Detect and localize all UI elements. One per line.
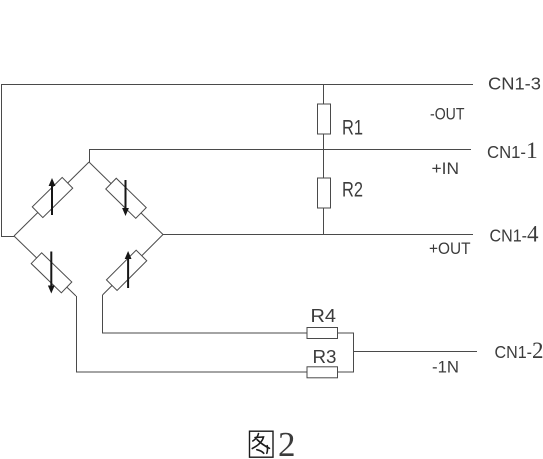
strain gauge top-left body bbox=[32, 177, 72, 217]
resistor R4 bbox=[307, 328, 338, 339]
wire bus joining R4 and R3 bbox=[353, 333, 355, 372]
svg-text:-OUT: -OUT bbox=[430, 105, 465, 123]
arrow down through bottom-left gauge bbox=[48, 252, 55, 294]
wire CN1-1 rail from bridge top node bbox=[90, 150, 472, 163]
arrow up through top-left gauge bbox=[49, 178, 56, 215]
caption character tu (figure) drawn as strokes bbox=[250, 431, 274, 457]
svg-text:CN1-4: CN1-4 bbox=[490, 222, 540, 247]
svg-text:2: 2 bbox=[278, 425, 296, 459]
svg-text:CN1-1: CN1-1 bbox=[487, 138, 538, 164]
wire from bottom-right gauge to R4 bbox=[103, 295, 308, 333]
svg-text:CN1-2: CN1-2 bbox=[495, 338, 543, 363]
strain gauge bottom-left body bbox=[31, 253, 72, 293]
arrow up through bottom-right gauge bbox=[125, 251, 132, 288]
resistor R3 bbox=[307, 367, 338, 378]
wire R4 right to bus bbox=[338, 332, 355, 334]
wire left border and top rail to CN1-3 bbox=[2, 85, 474, 237]
resistor R2 bbox=[318, 178, 331, 208]
resistor R1 bbox=[318, 104, 331, 134]
wire bridge diagonal top-right bbox=[89, 162, 163, 235]
arrow down through top-right gauge bbox=[122, 180, 129, 216]
svg-text:-1N: -1N bbox=[432, 359, 459, 377]
strain gauge bottom-right body bbox=[106, 250, 146, 290]
wire bridge diagonal top-left bbox=[14, 162, 89, 236]
svg-text:R3: R3 bbox=[313, 346, 337, 367]
strain gauge top-right body bbox=[106, 178, 147, 218]
svg-text:R4: R4 bbox=[311, 305, 337, 326]
svg-text:R2: R2 bbox=[342, 179, 363, 202]
svg-text:+OUT: +OUT bbox=[429, 240, 471, 258]
wire CN1-4 rail from bridge right node bbox=[163, 234, 473, 236]
wire left stub to bridge left node bbox=[1, 236, 14, 238]
svg-text:+IN: +IN bbox=[432, 160, 460, 178]
svg-text:R1: R1 bbox=[342, 117, 363, 140]
wire bridge diagonal bottom-right bbox=[103, 235, 164, 296]
wire R1 R2 vertical chain bbox=[323, 84, 325, 235]
wire R3 right to bus bbox=[338, 371, 355, 373]
wire from bottom-left gauge to R3 bbox=[77, 296, 308, 372]
wire bridge diagonal bottom-left bbox=[14, 236, 76, 296]
wire CN1-2 rail bbox=[354, 351, 478, 353]
svg-text:CN1-3: CN1-3 bbox=[488, 74, 541, 94]
